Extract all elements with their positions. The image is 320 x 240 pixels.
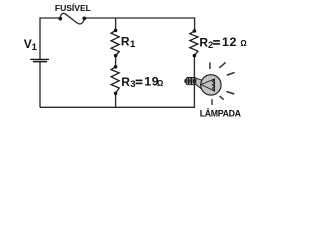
fuse F1	[58, 13, 86, 24]
ray right-lower	[227, 92, 235, 95]
wire top-left segment	[40, 17, 60, 19]
wire bottom	[40, 106, 195, 108]
svg-text:Ω: Ω	[157, 79, 163, 88]
resistor R2	[190, 29, 198, 57]
ray bottom	[211, 99, 213, 105]
wire left rail lower	[39, 62, 41, 107]
svg-text:R: R	[121, 75, 130, 89]
lamp contact tip	[184, 79, 187, 83]
lamp neck	[196, 78, 202, 89]
svg-text:1: 1	[32, 42, 38, 53]
ray top	[209, 62, 211, 69]
resistor R3	[111, 65, 119, 95]
svg-text:2: 2	[208, 40, 213, 51]
wire right rail bottom (lamp to corner)	[193, 84, 195, 108]
svg-text:1: 1	[130, 39, 136, 50]
resistor R1	[111, 29, 119, 58]
ray lower-right	[220, 96, 224, 100]
wire right rail mid (R2 to lamp)	[193, 56, 195, 79]
svg-text:V: V	[24, 37, 32, 51]
svg-text:Ω: Ω	[240, 39, 246, 48]
ray right-upper	[227, 72, 235, 75]
svg-text:R: R	[121, 34, 130, 48]
ray upper-right	[219, 62, 225, 68]
wire middle branch between R1 and R3	[115, 56, 117, 67]
wire middle branch top	[115, 18, 117, 30]
wire right rail top	[194, 17, 196, 31]
wire left rail upper	[39, 17, 41, 59]
lamp (light bulb)	[184, 62, 234, 105]
wire middle branch bottom	[115, 93, 117, 107]
lamp screw base	[186, 78, 196, 85]
svg-text:3: 3	[130, 79, 135, 90]
lamp glass bulb	[201, 75, 221, 95]
svg-text:LÂMPADA: LÂMPADA	[200, 108, 242, 119]
svg-text:12: 12	[222, 35, 237, 49]
battery V1	[30, 59, 49, 61]
lamp filament	[201, 79, 215, 91]
wire top-right segment	[84, 17, 194, 19]
svg-text:FUSÍVEL: FUSÍVEL	[55, 3, 91, 13]
